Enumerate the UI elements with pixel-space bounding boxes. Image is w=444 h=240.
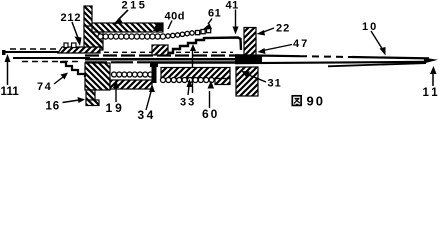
svg-text:22: 22: [276, 23, 290, 35]
svg-text:40d: 40d: [165, 11, 185, 23]
svg-text:33: 33: [180, 97, 196, 109]
svg-text:31: 31: [268, 78, 282, 90]
svg-text:19: 19: [106, 101, 125, 115]
svg-text:61: 61: [208, 8, 221, 20]
svg-text:47: 47: [293, 38, 309, 50]
svg-text:215: 215: [122, 0, 148, 12]
svg-text:10: 10: [362, 21, 378, 33]
svg-text:60: 60: [202, 107, 219, 120]
svg-text:74: 74: [37, 81, 52, 93]
svg-text:212: 212: [61, 12, 82, 24]
svg-text:34: 34: [138, 108, 156, 120]
svg-text:16: 16: [46, 101, 60, 113]
svg-text:90: 90: [307, 94, 325, 109]
svg-text:41: 41: [226, 0, 239, 12]
svg-text:11: 11: [423, 87, 441, 99]
svg-text:111: 111: [1, 86, 20, 98]
